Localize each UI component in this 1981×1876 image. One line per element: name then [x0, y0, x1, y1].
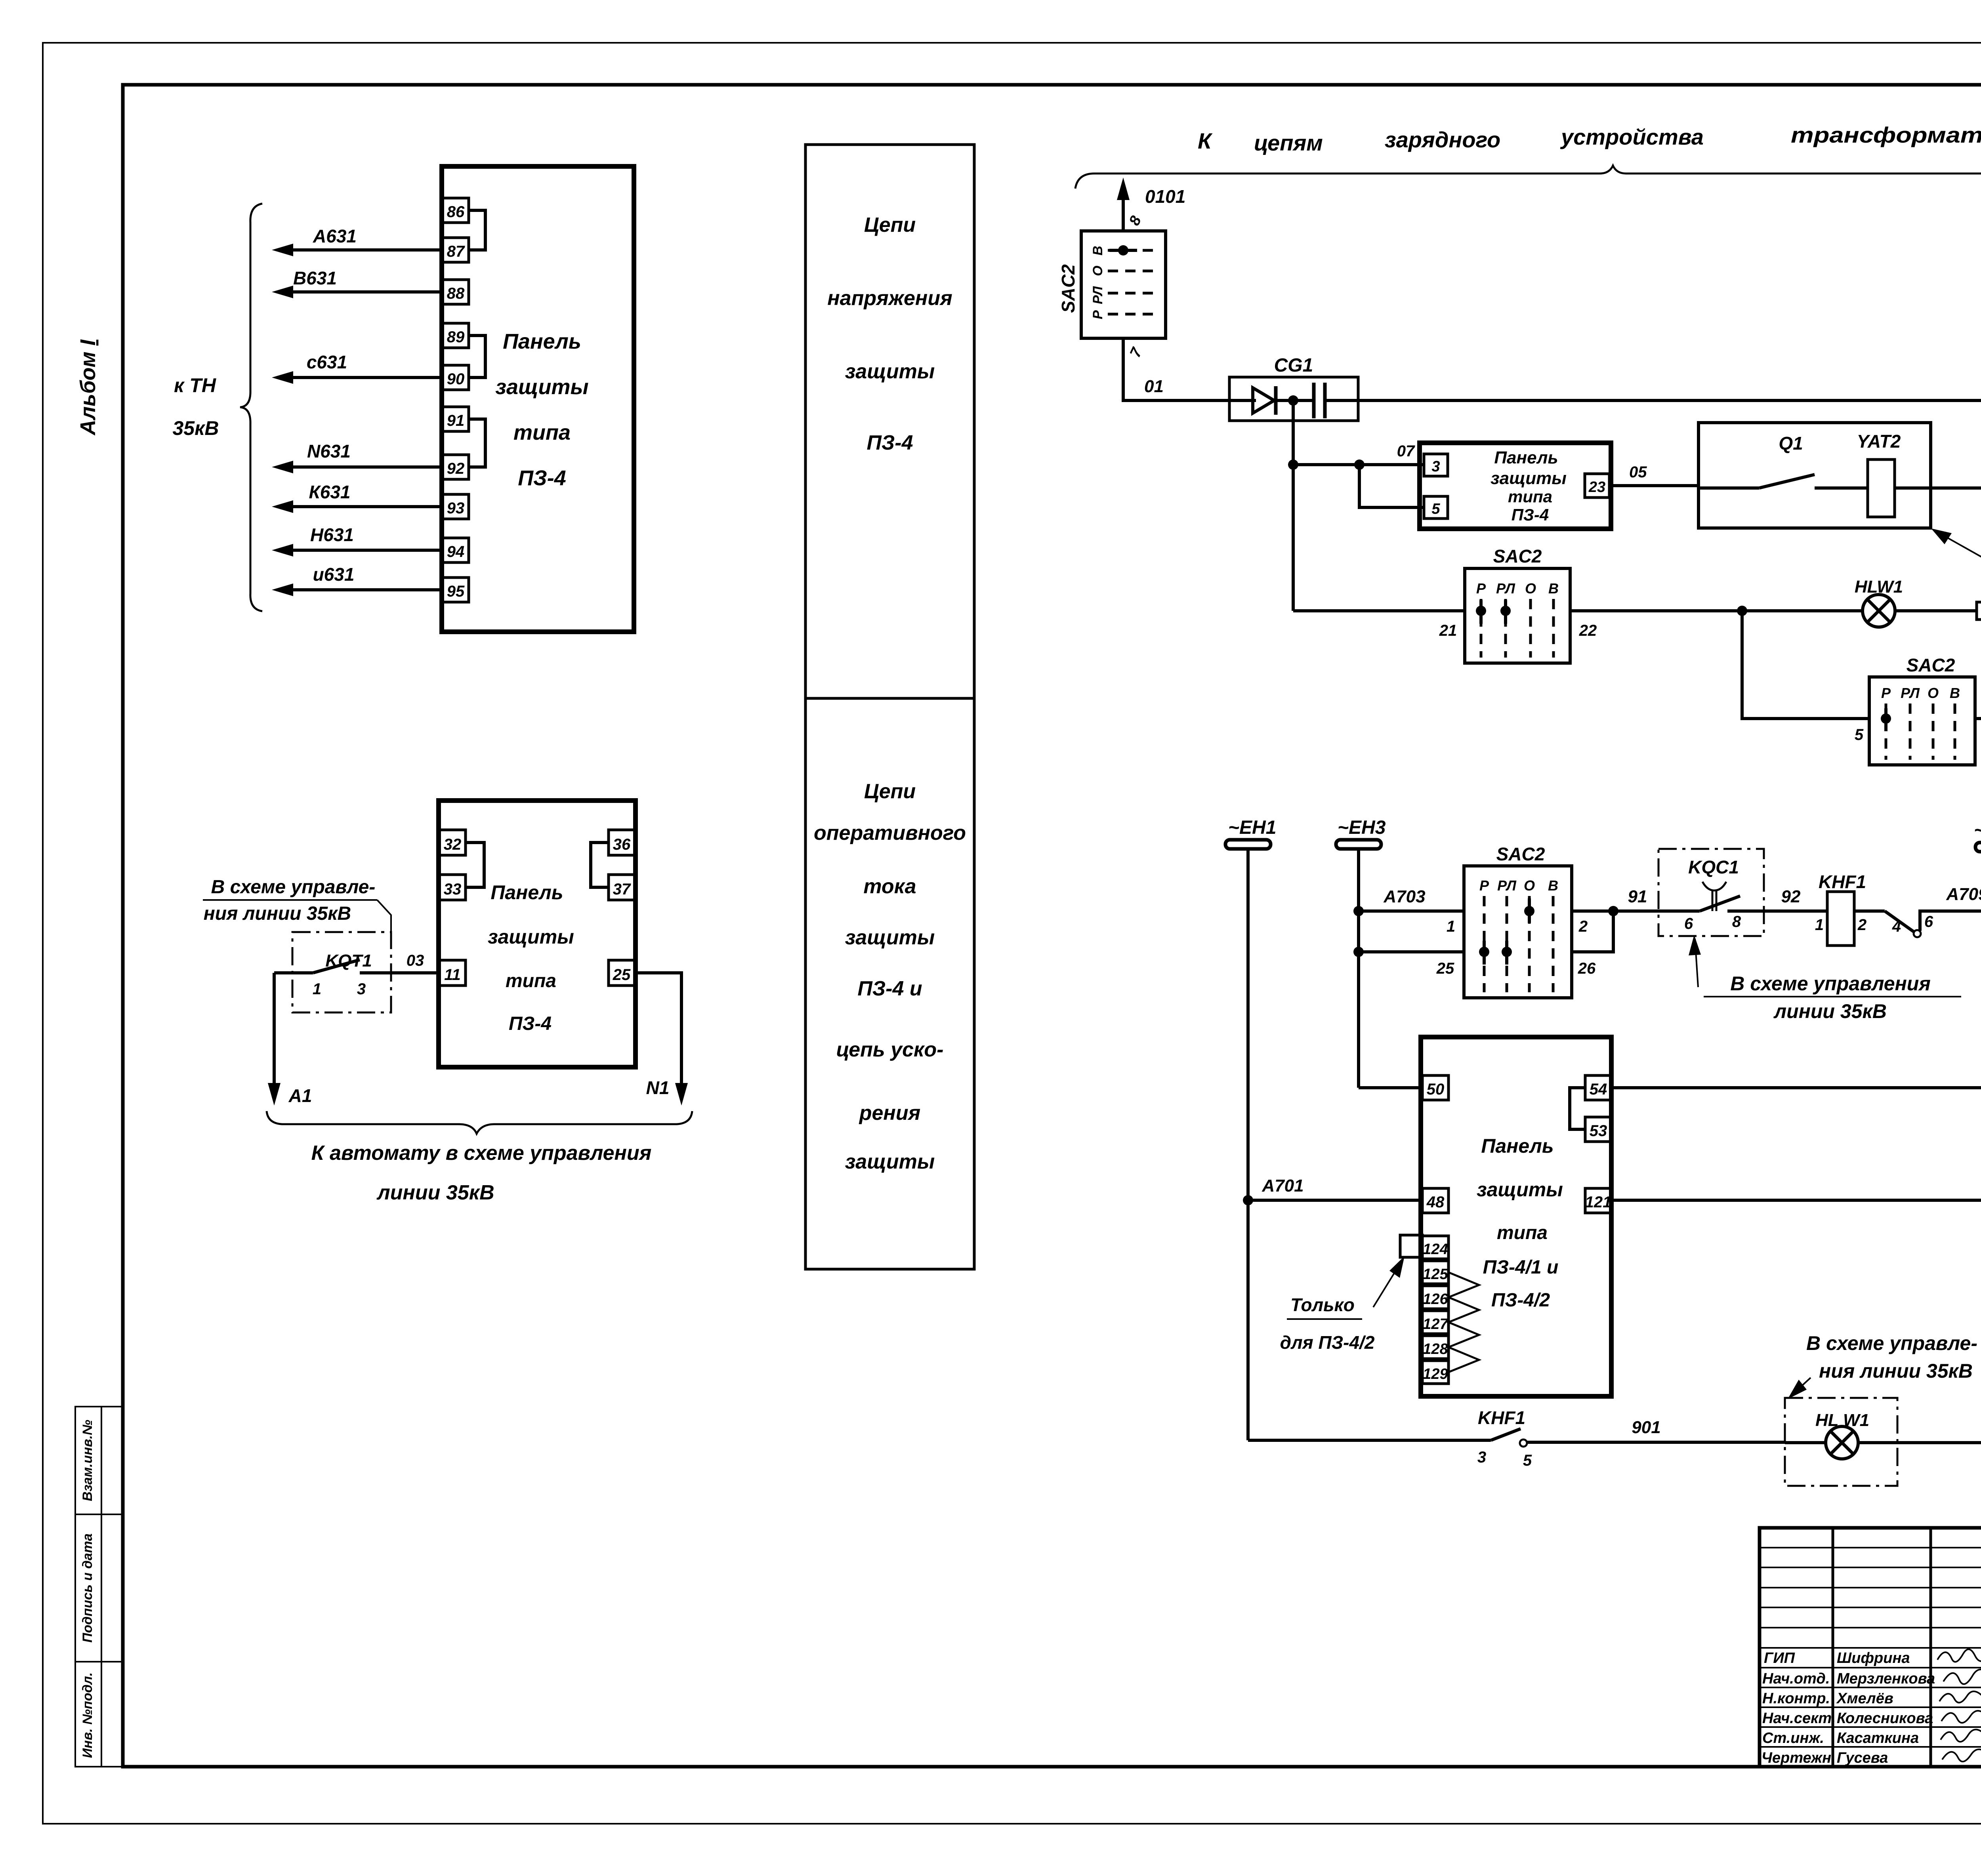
svg-text:128: 128 [1423, 1341, 1448, 1357]
svg-text:Панель: Панель [1481, 1135, 1554, 1157]
terminal 91 [443, 407, 469, 431]
title block grid [1760, 1528, 1981, 1767]
svg-text:ПЗ-4/1 и: ПЗ-4/1 и [1483, 1257, 1559, 1278]
svg-text:А703: А703 [1383, 887, 1425, 906]
protection panel ПЗ-4/1, ПЗ-4/2 [1421, 1037, 1611, 1396]
svg-text:121: 121 [1585, 1193, 1612, 1211]
svg-text:трансформатора: трансформатора [1791, 122, 1981, 147]
svg-text:ПЗ-4 и: ПЗ-4 и [857, 977, 922, 1000]
svg-text:1: 1 [313, 980, 321, 998]
svg-text:124: 124 [1423, 1241, 1448, 1258]
svg-text:33: 33 [444, 881, 462, 898]
svg-text:89: 89 [447, 328, 465, 346]
terminal 92 [443, 455, 469, 479]
svg-text:РЛ: РЛ [1901, 685, 1920, 701]
svg-text:36: 36 [613, 836, 631, 853]
svg-text:4: 4 [1892, 918, 1901, 935]
switch SAC2 (contacts 1-2, 25-26) [1464, 844, 1572, 998]
wire 01 [1123, 338, 1229, 400]
terminal 93 [443, 494, 469, 519]
svg-text:5: 5 [1431, 501, 1440, 517]
wire A631 [272, 226, 443, 256]
jumper 91-92 [469, 419, 485, 467]
svg-text:KHF1: KHF1 [1819, 871, 1866, 892]
svg-text:напряжения: напряжения [827, 287, 952, 310]
svg-text:Подпись и дата: Подпись и дата [80, 1533, 95, 1643]
svg-text:ПЗ-4: ПЗ-4 [509, 1013, 552, 1034]
pin 7 [1127, 345, 1146, 360]
wire 901 [1632, 1418, 1660, 1437]
svg-text:В схеме управления: В схеме управления [1730, 972, 1931, 995]
svg-text:N1: N1 [646, 1077, 670, 1098]
svg-text:ПЗ-4: ПЗ-4 [518, 466, 566, 490]
jumper 36-37 [591, 843, 609, 887]
breaker drive box [1699, 423, 1931, 528]
svg-text:SAC2: SAC2 [1058, 264, 1078, 313]
svg-text:А701: А701 [1262, 1176, 1303, 1195]
leader: только для ПЗ-4/2 [1280, 1256, 1405, 1353]
svg-text:~ЕНР: ~ЕНР [1974, 820, 1981, 841]
jumper 89-90 [469, 336, 485, 377]
svg-text:линии 35кВ: линии 35кВ [376, 1181, 494, 1204]
svg-text:Касаткина: Касаткина [1837, 1730, 1919, 1746]
terminal 124 [1422, 1236, 1449, 1259]
wire K631 [272, 482, 443, 513]
svg-text:ГИП: ГИП [1764, 1650, 1795, 1666]
leader: в схеме управления линии 35кв (KQT1) [203, 877, 391, 932]
terminal 87 [443, 238, 469, 262]
svg-text:К631: К631 [309, 482, 350, 502]
svg-text:оперативного: оперативного [814, 822, 966, 845]
switch SAC2 (contacts 7-8) [1058, 231, 1166, 338]
svg-text:8: 8 [1732, 913, 1741, 930]
svg-text:92: 92 [447, 460, 465, 477]
svg-text:ПЗ-4/2: ПЗ-4/2 [1491, 1290, 1550, 1311]
svg-text:цепям: цепям [1254, 130, 1323, 155]
svg-text:ПЗ-4: ПЗ-4 [866, 431, 913, 454]
svg-text:В: В [1548, 580, 1559, 597]
svg-text:и631: и631 [313, 564, 355, 585]
svg-text:94: 94 [447, 543, 465, 561]
svg-text:Панель: Панель [1494, 448, 1558, 467]
svg-text:защиты: защиты [1477, 1178, 1563, 1201]
wire to pin 25 [1359, 950, 1464, 953]
aux square at 124 [1400, 1235, 1422, 1257]
auto switch KQT1 (dash-dot box) [274, 932, 439, 1012]
wire B631 [272, 268, 443, 298]
terminal 5 [1424, 496, 1448, 519]
svg-text:90: 90 [447, 370, 465, 388]
terminal 3 [1424, 454, 1448, 476]
caption: к цепям зарядного устройства трансформатора [1198, 122, 1981, 155]
svg-text:2: 2 [1578, 918, 1588, 935]
svg-text:SAC2: SAC2 [1907, 655, 1955, 675]
jumper 54-53 [1570, 1088, 1585, 1129]
svg-text:KHF1: KHF1 [1478, 1407, 1525, 1428]
svg-text:защиты: защиты [488, 926, 574, 948]
pin 26 [1578, 960, 1596, 977]
wire 03 [407, 952, 424, 969]
svg-text:Р: Р [1881, 685, 1891, 701]
svg-text:цепь уско-: цепь уско- [836, 1038, 944, 1061]
svg-text:Ст.инж.: Ст.инж. [1762, 1730, 1824, 1746]
leader: привод выключателя [1931, 528, 1981, 585]
terminal 95 [443, 578, 469, 602]
svg-text:В схеме управле-: В схеме управле- [211, 877, 376, 898]
svg-text:6: 6 [1924, 913, 1933, 930]
svg-text:Чертежн: Чертежн [1762, 1750, 1831, 1766]
svg-text:Шифрина: Шифрина [1837, 1650, 1910, 1666]
left stamp column [75, 1407, 123, 1767]
svg-text:Панель: Панель [503, 330, 581, 353]
breaker contact Q1 [1699, 433, 1869, 488]
terminal 11 [439, 960, 466, 986]
terminal 125 [1422, 1261, 1449, 1284]
terminal 48 [1422, 1188, 1449, 1213]
svg-text:Р: Р [1090, 310, 1105, 319]
svg-text:86: 86 [447, 203, 465, 221]
svg-text:защиты: защиты [1491, 469, 1567, 488]
pin 2 [1578, 918, 1588, 935]
riser to discharge switch [1742, 611, 1869, 719]
svg-text:РЛ: РЛ [1497, 877, 1517, 894]
svg-text:05: 05 [1629, 463, 1647, 481]
svg-text:~ЕН1: ~ЕН1 [1228, 817, 1276, 838]
svg-text:91: 91 [447, 412, 465, 429]
svg-text:Н631: Н631 [310, 524, 354, 545]
svg-text:зарядного: зарядного [1385, 127, 1500, 152]
wire lamp to N703 riser [1897, 1441, 1981, 1444]
svg-text:88: 88 [447, 285, 465, 302]
svg-text:92: 92 [1781, 887, 1801, 906]
svg-text:Только: Только [1290, 1295, 1355, 1315]
jumper 86-87 [469, 210, 485, 250]
terminal 36 [609, 830, 635, 855]
svg-text:защиты: защиты [495, 375, 588, 399]
svg-text:KQC1: KQC1 [1688, 857, 1739, 877]
svg-text:35кВ: 35кВ [172, 417, 219, 439]
terminal 121 [1585, 1188, 1612, 1213]
leader: в схеме управления линии 35кв (lamp) [1788, 1332, 1977, 1399]
svg-text:линии 35кВ: линии 35кВ [1773, 1000, 1887, 1022]
svg-text:устройства: устройства [1560, 124, 1704, 149]
svg-text:129: 129 [1423, 1366, 1448, 1382]
terminal 128 [1422, 1336, 1449, 1359]
svg-text:Р: Р [1479, 877, 1489, 894]
supply ~EH1 [1225, 817, 1276, 849]
svg-text:5: 5 [1523, 1452, 1532, 1469]
terminal 53 [1585, 1117, 1611, 1142]
terminal 32 [439, 830, 466, 855]
terminal 54 [1585, 1075, 1611, 1100]
svg-text:5: 5 [1855, 726, 1864, 744]
svg-text:О: О [1090, 266, 1105, 276]
wire A1 [268, 973, 312, 1106]
brace over charging circuit [1075, 166, 1981, 189]
switch SAC2 (contacts 21-22) [1465, 546, 1570, 663]
svg-text:SAC2: SAC2 [1496, 844, 1545, 864]
legend column box [805, 145, 974, 1269]
svg-text:В631: В631 [293, 268, 337, 288]
pin 25 [1436, 960, 1454, 977]
svg-text:2: 2 [1857, 916, 1866, 934]
branch wire to terminal 5 [1359, 465, 1424, 507]
svg-text:48: 48 [1426, 1193, 1445, 1211]
supply ~EH3 [1336, 817, 1386, 849]
signature rows [1764, 1650, 1910, 1666]
svg-text:типа: типа [1497, 1222, 1548, 1243]
wire 0101 to charger [1117, 177, 1185, 231]
terminal 33 [439, 875, 466, 900]
svg-text:рения: рения [859, 1102, 920, 1125]
wire 02 bus (CG1 to right riser) [1358, 379, 1981, 400]
svg-text:ния линии 35кВ: ния линии 35кВ [204, 903, 351, 924]
diode inside CG1 [1229, 386, 1276, 415]
wire A709 [1946, 885, 1981, 904]
wire H631 [272, 524, 443, 557]
svg-text:О: О [1524, 877, 1535, 894]
svg-text:126: 126 [1423, 1291, 1448, 1308]
svg-text:3: 3 [1477, 1449, 1486, 1466]
pin 5 [1855, 726, 1864, 744]
svg-text:3: 3 [1431, 458, 1440, 475]
wire from diode node to SAC2 21 [1293, 609, 1465, 612]
branch wire 07 to terminal 3 [1288, 442, 1424, 470]
svg-text:50: 50 [1427, 1081, 1445, 1098]
svg-text:А709: А709 [1946, 885, 1981, 904]
svg-text:защиты: защиты [845, 1150, 935, 1173]
svg-text:6: 6 [1684, 915, 1693, 932]
svg-text:Мерзленкова: Мерзленкова [1837, 1670, 1935, 1687]
capacitor inside CG1 [1275, 383, 1358, 418]
svg-text:127: 127 [1423, 1316, 1449, 1333]
svg-text:0101: 0101 [1145, 186, 1185, 207]
terminal 89 [443, 323, 469, 348]
svg-text:1: 1 [1447, 918, 1455, 935]
wire N703 [1611, 1176, 1981, 1200]
svg-text:РЛ: РЛ [1496, 580, 1515, 597]
svg-text:54: 54 [1590, 1081, 1607, 1098]
svg-text:07: 07 [1397, 442, 1415, 460]
svg-text:К: К [1198, 128, 1213, 153]
svg-text:Гусева: Гусева [1837, 1750, 1888, 1766]
terminal 25 [609, 960, 635, 986]
svg-text:~ЕН3: ~ЕН3 [1338, 817, 1386, 838]
svg-text:А631: А631 [313, 226, 357, 246]
terminal 126 [1422, 1286, 1449, 1309]
svg-text:для ПЗ-4/2: для ПЗ-4/2 [1280, 1332, 1375, 1353]
heater zigzag 125-129 [1449, 1272, 1479, 1372]
wire 22 to lamp [1570, 606, 1863, 616]
svg-text:Q1: Q1 [1779, 433, 1803, 454]
svg-text:11: 11 [444, 966, 461, 984]
svg-text:YAT2: YAT2 [1857, 431, 1901, 452]
trip coil YAT2 [1857, 431, 1981, 517]
contact 4-6 [1854, 911, 1981, 937]
EH1 riser [1243, 849, 1253, 1440]
svg-text:901: 901 [1632, 1418, 1660, 1437]
svg-text:25: 25 [613, 966, 631, 984]
wire 6 to riser [1975, 717, 1981, 720]
svg-text:125: 125 [1423, 1266, 1448, 1283]
svg-text:Взам.инв.№: Взам.инв.№ [80, 1420, 95, 1501]
svg-text:Цепи: Цепи [864, 214, 916, 236]
svg-text:Колесникова: Колесникова [1837, 1710, 1933, 1727]
wire 50 branch [1359, 1086, 1422, 1089]
wire 92 [1764, 887, 1827, 911]
svg-text:типа: типа [506, 970, 556, 991]
svg-text:91: 91 [1628, 887, 1647, 906]
svg-text:Нач.отд.: Нач.отд. [1762, 1670, 1830, 1687]
terminal 94 [443, 538, 469, 562]
wire 05 [1611, 463, 1699, 486]
protection panel ПЗ-4 (charging) [1420, 443, 1611, 529]
wire A701 [1248, 1176, 1422, 1200]
wire 91 [1572, 887, 1658, 916]
svg-text:типа: типа [1508, 487, 1552, 506]
svg-text:О: О [1928, 685, 1939, 701]
riser from diode node down [1292, 400, 1295, 611]
svg-text:25: 25 [1436, 960, 1454, 977]
pin 1 [1447, 918, 1455, 935]
svg-text:к ТН: к ТН [174, 374, 216, 397]
lamp HLW1 [1855, 577, 1903, 627]
svg-text:N631: N631 [307, 441, 351, 461]
svg-text:РЛ: РЛ [1090, 286, 1105, 304]
capacitor unit CG1 [1229, 355, 1358, 421]
svg-text:01: 01 [1144, 377, 1164, 396]
svg-text:95: 95 [447, 583, 465, 600]
svg-text:ния линии 35кВ: ния линии 35кВ [1819, 1360, 1973, 1382]
svg-text:26: 26 [1578, 960, 1596, 977]
svg-text:Р: Р [1476, 580, 1486, 597]
pin 21 [1439, 622, 1457, 639]
loop 26 to 2 [1572, 911, 1613, 952]
signatures (scribbles) [1937, 1649, 1981, 1762]
svg-text:23: 23 [1588, 479, 1605, 496]
svg-text:37: 37 [613, 881, 631, 898]
svg-text:CG1: CG1 [1274, 355, 1313, 376]
svg-text:3: 3 [357, 980, 366, 998]
resistor R3 [1895, 579, 1981, 620]
panel ПЗ-4 (voltage circuits) [442, 166, 634, 632]
svg-text:защиты: защиты [845, 926, 935, 949]
signal lamp HLW1 (dash-dot box) [1785, 1398, 1897, 1486]
svg-text:Цепи: Цепи [864, 780, 916, 803]
svg-text:1: 1 [1815, 916, 1824, 934]
leader: в схеме управления линии 35кв (KQC1) [1689, 935, 1961, 1022]
wire N631 [272, 441, 443, 473]
wire N1 [635, 973, 688, 1106]
svg-text:21: 21 [1439, 622, 1457, 639]
svg-text:с631: с631 [307, 352, 347, 372]
svg-text:В: В [1090, 246, 1105, 255]
brace: к автомату [267, 1111, 692, 1204]
terminal 88 [443, 280, 469, 304]
svg-text:А1: А1 [288, 1085, 312, 1106]
svg-text:03: 03 [407, 952, 424, 969]
switch SAC2 (contacts 5-6) [1869, 655, 1975, 765]
svg-text:В: В [1950, 685, 1960, 701]
supply ~EHP [1974, 820, 1981, 852]
svg-text:В схеме управле-: В схеме управле- [1806, 1332, 1977, 1354]
EH3 riser [1353, 849, 1364, 1088]
wire A703 [1359, 887, 1464, 911]
wire 54 to EHP riser [1611, 1083, 1981, 1093]
relay contact KQC1 (dash-dot box) [1658, 849, 1764, 936]
svg-text:В: В [1548, 877, 1558, 894]
svg-text:защиты: защиты [845, 360, 935, 383]
terminal 127 [1422, 1311, 1449, 1334]
relay coil KHF1 [1815, 871, 1866, 946]
svg-text:Инв. №подл.: Инв. №подл. [80, 1672, 95, 1758]
svg-text:87: 87 [447, 243, 465, 260]
svg-text:тока: тока [863, 875, 916, 898]
terminal 86 [443, 198, 469, 223]
svg-text:К автомату в схеме управлен: К автомату в схеме управления [311, 1142, 652, 1165]
svg-text:Н.контр.: Н.контр. [1762, 1690, 1830, 1707]
svg-text:SAC2: SAC2 [1493, 546, 1542, 566]
svg-text:53: 53 [1590, 1122, 1607, 1140]
terminal 37 [609, 875, 635, 900]
svg-text:Альбом I: Альбом I [76, 339, 100, 436]
svg-text:Нач.сект.: Нач.сект. [1762, 1710, 1836, 1727]
terminal 90 [443, 365, 469, 390]
svg-text:Панель: Панель [490, 881, 563, 904]
pin 8 [1126, 213, 1145, 228]
svg-text:Хмелёв: Хмелёв [1836, 1690, 1893, 1707]
jumper 32-33 [466, 843, 484, 887]
svg-text:32: 32 [444, 836, 462, 853]
bottom contact KHF1 [1248, 1407, 1785, 1469]
node after diode [1288, 395, 1298, 406]
svg-text:ПЗ-4: ПЗ-4 [1512, 505, 1549, 524]
svg-text:О: О [1525, 580, 1536, 597]
wire C631 [272, 352, 443, 384]
terminal 50 [1422, 1075, 1449, 1100]
svg-text:93: 93 [447, 500, 465, 517]
brace к ТН [172, 204, 262, 611]
pin 22 [1579, 622, 1597, 639]
terminal 23 [1585, 474, 1609, 498]
protection panel ПЗ-4 (operative current) [439, 801, 636, 1067]
rotated margin label: Альбом I [76, 339, 100, 436]
svg-text:22: 22 [1579, 622, 1597, 639]
wire U631 [272, 564, 443, 596]
terminal 129 [1422, 1361, 1449, 1384]
svg-text:типа: типа [513, 421, 571, 444]
